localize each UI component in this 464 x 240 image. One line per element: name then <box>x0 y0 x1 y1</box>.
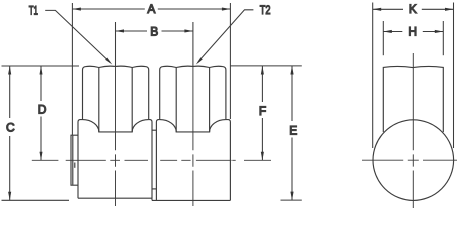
svg-text:D: D <box>38 103 47 117</box>
wheel right: facet line a <box>209 68 211 132</box>
svg-text:B: B <box>150 24 158 38</box>
dim C line <box>9 66 11 200</box>
dim B extension line left <box>115 22 117 66</box>
dim F line <box>261 66 263 160</box>
dim E line <box>291 66 293 200</box>
axis centerline left horizontal <box>32 159 148 161</box>
wheel left: facet line b <box>131 68 133 132</box>
dim H extension line left <box>382 21 384 55</box>
svg-text:E: E <box>289 123 297 137</box>
wheel right: lobe outline (mirror) <box>152 66 230 200</box>
wheel right: roller body <box>152 120 230 201</box>
axle tab: chamfer line <box>72 136 74 185</box>
top extension line right (E/F datum) <box>231 65 302 67</box>
side view: roller circle <box>373 120 454 201</box>
dim H line <box>383 31 443 33</box>
side view: crown dome <box>383 66 443 132</box>
leader T1 <box>45 10 110 62</box>
dim K extension line left <box>372 3 374 149</box>
bottom extension line right (E datum) <box>281 199 302 201</box>
centerline wheel right vertical <box>192 66 194 206</box>
wheel right: facet line b <box>175 68 177 132</box>
svg-text:H: H <box>408 25 417 39</box>
dim D line <box>40 66 42 160</box>
hub between rollers: bottom edge <box>152 188 156 190</box>
top extension line left (C/D datum) <box>2 65 80 67</box>
hub between rollers: top edge <box>152 129 156 131</box>
svg-text:T2: T2 <box>260 3 271 17</box>
wheel left: lobe outline <box>83 66 149 119</box>
side view: horizontal centerline <box>362 159 457 161</box>
dim A extension line left <box>71 3 73 135</box>
dim K extension line right <box>453 3 455 149</box>
side view: vertical centerline <box>412 53 414 208</box>
svg-text:K: K <box>409 2 417 16</box>
svg-text:C: C <box>6 121 15 135</box>
wheel left: roller body <box>78 120 152 199</box>
centerline wheel left vertical <box>115 66 117 206</box>
dim H extension line right <box>442 21 444 55</box>
dim A extension line right <box>229 3 231 119</box>
svg-text:T1: T1 <box>29 4 39 18</box>
dim A line <box>72 8 230 10</box>
axle tab: keyway tick <box>74 163 76 168</box>
dim B extension line right <box>192 22 194 66</box>
leader T2 <box>198 10 254 63</box>
axis centerline right horizontal <box>160 159 271 161</box>
wheel left: facet line a <box>98 68 100 132</box>
axle tab on left: outer rectangle <box>71 135 78 185</box>
bottom step between rollers <box>151 198 153 200</box>
svg-text:F: F <box>259 104 266 118</box>
wheel right: crown fillet dip <box>160 120 226 132</box>
dim B line <box>116 30 193 32</box>
svg-text:A: A <box>147 2 155 16</box>
bottom extension line left (C datum) <box>2 199 70 201</box>
wheel left: crown fillet dip <box>83 120 149 132</box>
dim K line <box>373 8 454 10</box>
